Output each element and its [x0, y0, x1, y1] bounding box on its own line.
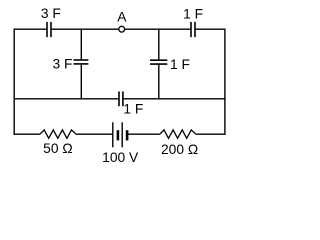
- capacitor C3 value 3 F (middle left, horizontal plates): [74, 60, 89, 64]
- svg-text:100 V: 100 V: [102, 150, 139, 165]
- capacitor C5 value 1 F (bottom middle, vertical plates): [119, 92, 123, 107]
- wire: bottom-left segment from left corner to resistor R1: [14, 133, 40, 135]
- wire: bottom segment from battery to resistor R2: [127, 133, 160, 135]
- capacitor C4 value 1 F (middle right, horizontal plates): [150, 60, 167, 64]
- wire: left vertical rail: [13, 29, 15, 135]
- wire: bottom-right segment from R2 to right corner: [196, 133, 225, 135]
- capacitor C2 value 1 F (top right, vertical plates): [191, 22, 195, 37]
- svg-text:3 F: 3 F: [41, 6, 61, 21]
- svg-text:1 F: 1 F: [183, 7, 203, 22]
- resistor R1 value 50 ohm (zigzag): [40, 130, 76, 138]
- wire: middle horizontal rail left of C5: [14, 98, 119, 100]
- svg-text:A: A: [117, 9, 127, 24]
- svg-text:3 F: 3 F: [53, 57, 73, 72]
- wire: upper segment of middle-right branch: [158, 29, 160, 60]
- battery B1 value 100 V (two cells): [113, 122, 127, 147]
- svg-text:50 Ω: 50 Ω: [43, 141, 73, 156]
- wire: upper segment of middle-left branch: [80, 29, 82, 60]
- wire: bottom segment from R1 to battery: [76, 133, 113, 135]
- wire: right vertical rail: [224, 29, 226, 135]
- wire: top middle segment from C1 through node A to capacitor C2: [51, 28, 191, 30]
- wire: top-right segment from C2 to right corner: [195, 28, 225, 30]
- wire: lower segment of middle-left branch: [80, 64, 82, 99]
- svg-text:200 Ω: 200 Ω: [161, 142, 198, 157]
- resistor R2 value 200 ohm (zigzag): [160, 130, 196, 138]
- svg-text:1 F: 1 F: [170, 57, 190, 72]
- wire: top-left segment from left corner to capacitor C1: [14, 28, 47, 30]
- capacitor C1 value 3 F (top left, vertical plates): [47, 22, 51, 37]
- svg-text:1 F: 1 F: [123, 102, 143, 117]
- wire: lower segment of middle-right branch: [158, 64, 160, 99]
- node A (open terminal circle): [119, 26, 125, 32]
- wire: middle horizontal rail right of C5: [123, 98, 225, 100]
